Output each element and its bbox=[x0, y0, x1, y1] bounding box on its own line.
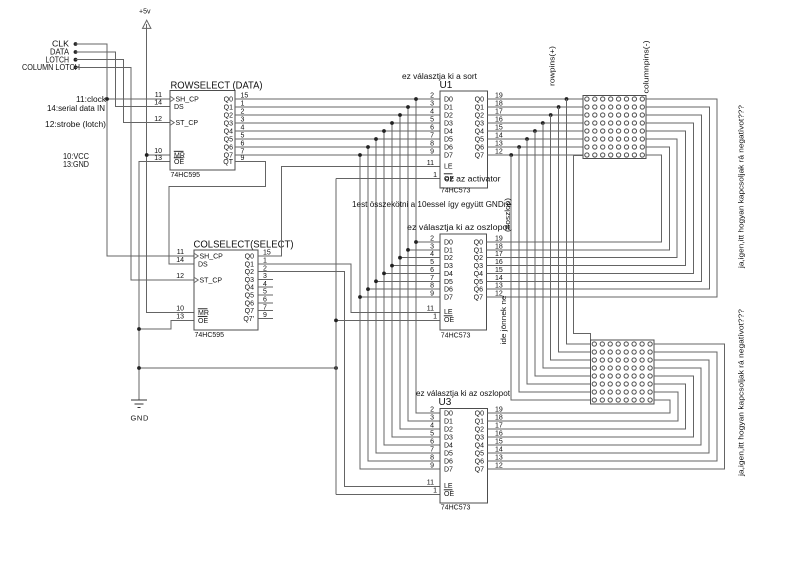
svg-text:2: 2 bbox=[430, 236, 434, 243]
svg-text:Q4: Q4 bbox=[475, 443, 484, 450]
junction rowpin tap Q7 bbox=[509, 153, 513, 157]
svg-text:Q3: Q3 bbox=[475, 121, 484, 128]
svg-text:Q1: Q1 bbox=[475, 419, 484, 426]
svg-text:Q5: Q5 bbox=[224, 137, 233, 144]
svg-text:COLUMN LOTCH: COLUMN LOTCH bbox=[22, 63, 80, 72]
junction rowpin tap Q1 bbox=[557, 105, 561, 109]
svg-text:14: 14 bbox=[495, 275, 503, 282]
svg-text:Q5: Q5 bbox=[245, 293, 254, 300]
svg-text:ez választja ki az oszlopot: ez választja ki az oszlopot bbox=[407, 223, 511, 232]
svg-text:4: 4 bbox=[430, 423, 434, 430]
svg-text:LE: LE bbox=[444, 309, 453, 316]
svg-text:14: 14 bbox=[154, 100, 162, 107]
svg-text:Q7: Q7 bbox=[475, 153, 484, 160]
svg-text:Q6: Q6 bbox=[475, 459, 484, 466]
wire rowpin tap Q5 to matrix2 row 6 left pin bbox=[527, 139, 591, 384]
svg-text:ide jönnek ne: ide jönnek ne bbox=[501, 295, 508, 344]
svg-text:3: 3 bbox=[430, 415, 434, 422]
svg-text:16: 16 bbox=[495, 431, 503, 438]
svg-text:Q6: Q6 bbox=[475, 145, 484, 152]
stub COLSELECT Q3-Q7 Q7' unconnected outputs bbox=[258, 278, 273, 280]
junction CLK at ROWSELECT SH_CP bbox=[105, 97, 109, 101]
junction GND rail left bbox=[137, 366, 141, 370]
wire data bus bit 2 (Q2 to U1.D2, U2.D2, U3.D2) bbox=[235, 114, 440, 116]
wire data bus bit 1 (Q1 to U1.D1, U2.D1, U3.D1) bbox=[235, 106, 440, 108]
wire rowpin tap Q2 to matrix2 row 3 left pin bbox=[551, 115, 591, 360]
junction rowpin tap Q0 bbox=[565, 97, 569, 101]
svg-text:3: 3 bbox=[430, 243, 434, 250]
junction GND at COLSELECT OE jog bbox=[137, 327, 141, 331]
svg-text:LE: LE bbox=[444, 483, 453, 490]
svg-text:D5: D5 bbox=[444, 451, 453, 458]
svg-text:Q6: Q6 bbox=[474, 287, 483, 294]
svg-text:D0: D0 bbox=[444, 97, 453, 104]
IC ROWSELECT 74HC595 shift register bbox=[170, 91, 235, 171]
junction bus bit 1 at U2.D1 bbox=[406, 248, 410, 252]
wire U3 Q7 to matrix2 row 1 right pin bbox=[488, 344, 725, 469]
svg-text:D4: D4 bbox=[444, 443, 453, 450]
svg-text:D0: D0 bbox=[444, 240, 453, 247]
svg-text:1: 1 bbox=[241, 101, 245, 108]
junction rowpin tap Q6 bbox=[517, 145, 521, 149]
svg-text:1: 1 bbox=[433, 172, 437, 179]
svg-text:4: 4 bbox=[430, 251, 434, 258]
svg-text:Q4: Q4 bbox=[245, 285, 254, 292]
svg-text:Q7: Q7 bbox=[245, 308, 254, 315]
wire GND net ROWSELECT OE to ground bbox=[139, 162, 170, 400]
wire matrix1 row8 link to matrix2 top-left bbox=[574, 155, 591, 339]
svg-text:D2: D2 bbox=[444, 255, 453, 262]
wire GND net COLSELECT OE jog bbox=[139, 320, 194, 329]
wire U1 Q0 to matrix1 row 1 left pin bbox=[488, 98, 584, 100]
wire COLSELECT Q1 to U2 LE bbox=[258, 264, 440, 313]
svg-text:12: 12 bbox=[495, 149, 503, 156]
wire U3 Q1 to matrix2 row 7 right pin bbox=[488, 392, 678, 421]
svg-text:5: 5 bbox=[430, 117, 434, 124]
svg-text:Q5: Q5 bbox=[475, 451, 484, 458]
svg-text:17: 17 bbox=[495, 251, 503, 258]
svg-text:Q2: Q2 bbox=[245, 269, 254, 276]
svg-text:D3: D3 bbox=[444, 121, 453, 128]
svg-text:1: 1 bbox=[433, 487, 437, 494]
wire U1 Q4 to matrix1 row 5 left pin bbox=[488, 130, 584, 132]
junction rowpin tap Q4 bbox=[533, 129, 537, 133]
wire U3 Q4 to matrix2 row 4 right pin bbox=[488, 368, 702, 445]
junction GND rail right bbox=[334, 366, 338, 370]
svg-text:15: 15 bbox=[495, 267, 503, 274]
wire data bus bit 3 (Q3 to U1.D3, U2.D3, U3.D3) bbox=[235, 122, 440, 124]
wire COLSELECT Q2 to U3 LE bbox=[258, 272, 440, 487]
svg-text:13: 13 bbox=[495, 283, 503, 290]
svg-text:Q2: Q2 bbox=[475, 113, 484, 120]
svg-text:11: 11 bbox=[427, 306, 434, 313]
svg-text:9: 9 bbox=[241, 155, 245, 162]
svg-text:Q7: Q7 bbox=[474, 295, 483, 302]
svg-text:Q0: Q0 bbox=[475, 97, 484, 104]
svg-text:14: 14 bbox=[176, 257, 184, 264]
svg-text:9: 9 bbox=[263, 312, 267, 319]
svg-text:11: 11 bbox=[155, 92, 162, 99]
svg-text:D1: D1 bbox=[444, 419, 453, 426]
svg-text:Q4: Q4 bbox=[224, 129, 233, 136]
svg-text:10: 10 bbox=[176, 306, 184, 313]
svg-text:7: 7 bbox=[430, 275, 434, 282]
wire U2 Q6 to matrix1 row 2 right pin bbox=[487, 107, 710, 289]
svg-text:Q2: Q2 bbox=[224, 113, 233, 120]
wire COLSELECT Q0 to U1 LE bbox=[258, 167, 440, 257]
svg-text:1: 1 bbox=[433, 314, 437, 321]
node DATA terminal dot bbox=[74, 50, 78, 54]
svg-text:15: 15 bbox=[495, 439, 503, 446]
svg-text:Q0: Q0 bbox=[474, 240, 483, 247]
LED matrix DIS2 8x8 bbox=[591, 340, 654, 404]
svg-text:6: 6 bbox=[430, 267, 434, 274]
node CLK terminal dot bbox=[74, 42, 78, 46]
svg-text:columnpins(-): columnpins(-) bbox=[642, 40, 651, 94]
wire rowpin tap Q6 to matrix2 row 7 left pin bbox=[519, 147, 591, 392]
svg-text:Q3: Q3 bbox=[224, 121, 233, 128]
svg-text:Q7: Q7 bbox=[475, 467, 484, 474]
svg-text:74HC595: 74HC595 bbox=[171, 172, 201, 179]
wire U2 Q4 to matrix1 row 4 right pin bbox=[487, 123, 694, 273]
svg-text:5: 5 bbox=[430, 431, 434, 438]
svg-text:5: 5 bbox=[430, 259, 434, 266]
wire U3 Q0 to matrix2 row 8 right pin bbox=[488, 400, 670, 413]
svg-text:QT: QT bbox=[223, 159, 233, 166]
svg-text:16: 16 bbox=[495, 117, 503, 124]
svg-text:D2: D2 bbox=[444, 113, 453, 120]
svg-text:4: 4 bbox=[430, 109, 434, 116]
svg-text:19: 19 bbox=[495, 93, 503, 100]
svg-text:13: 13 bbox=[154, 155, 162, 162]
wire U2 Q3 to matrix1 row 5 right pin bbox=[487, 131, 686, 266]
svg-text:74HC595: 74HC595 bbox=[195, 332, 225, 339]
svg-text:U1: U1 bbox=[440, 80, 453, 91]
node LOTCH terminal dot bbox=[74, 58, 78, 62]
wire U2 Q1 to matrix1 row 7 right pin bbox=[487, 147, 670, 250]
svg-text:Q1: Q1 bbox=[245, 261, 254, 268]
svg-text:D3: D3 bbox=[444, 263, 453, 270]
LED matrix DIS1 8x8 bbox=[583, 96, 646, 159]
svg-text:11: 11 bbox=[177, 249, 184, 256]
svg-text:D6: D6 bbox=[444, 145, 453, 152]
svg-text:ST_CP: ST_CP bbox=[176, 120, 199, 127]
wire U2 Q5 to matrix1 row 3 right pin bbox=[487, 115, 702, 281]
svg-text:15: 15 bbox=[241, 93, 249, 100]
junction bus bit 5 at row line bbox=[374, 137, 378, 141]
junction +5V at ROWSELECT MR bbox=[145, 153, 149, 157]
junction bus bit 3 at row line bbox=[390, 121, 394, 125]
svg-text:14:serial data IN: 14:serial data IN bbox=[47, 104, 105, 113]
svg-text:74HC573: 74HC573 bbox=[441, 187, 471, 194]
svg-text:Q0: Q0 bbox=[475, 411, 484, 418]
wire U3 Q5 to matrix2 row 3 right pin bbox=[488, 360, 709, 453]
svg-text:D7: D7 bbox=[444, 295, 453, 302]
svg-text:4: 4 bbox=[241, 125, 245, 132]
junction bus bit 2 at U2.D2 bbox=[398, 256, 402, 260]
wire U2 Q2 to matrix1 row 6 right pin bbox=[487, 139, 678, 258]
svg-text:D6: D6 bbox=[444, 459, 453, 466]
svg-text:15: 15 bbox=[495, 125, 503, 132]
wire U2 Q7 to matrix1 row 1 right pin bbox=[487, 99, 718, 297]
svg-text:GND: GND bbox=[131, 414, 149, 423]
junction rowpin tap Q3 bbox=[541, 121, 545, 125]
svg-text:(8oszlop): (8oszlop) bbox=[505, 198, 512, 232]
wire data bus bit 0 (Q0 to U1.D0, U2.D0, U3.D0) bbox=[235, 98, 440, 100]
svg-text:17: 17 bbox=[495, 423, 503, 430]
svg-text:D2: D2 bbox=[444, 427, 453, 434]
svg-text:3: 3 bbox=[241, 117, 245, 124]
svg-text:12: 12 bbox=[154, 116, 162, 123]
svg-text:D5: D5 bbox=[444, 137, 453, 144]
svg-text:ja,igen,itt hogyan kapcsoljak: ja,igen,itt hogyan kapcsoljak rá negatív… bbox=[737, 105, 746, 269]
svg-text:+5v: +5v bbox=[139, 9, 151, 16]
wire rowpin tap Q7 to matrix2 row 8 left pin bbox=[511, 155, 590, 400]
junction bus bit 0 at row line bbox=[414, 97, 418, 101]
wire U3 Q6 to matrix2 row 2 right pin bbox=[488, 352, 717, 461]
svg-text:Q0: Q0 bbox=[245, 254, 254, 261]
svg-text:rowpins(+): rowpins(+) bbox=[548, 45, 557, 86]
junction bus bit 7 at U2.D7 bbox=[358, 295, 362, 299]
svg-text:Q6: Q6 bbox=[245, 300, 254, 307]
svg-text:D6: D6 bbox=[444, 287, 453, 294]
svg-text:DS: DS bbox=[198, 262, 208, 269]
junction bus bit 4 at U2.D4 bbox=[382, 272, 386, 276]
svg-text:Q1: Q1 bbox=[474, 247, 483, 254]
svg-text:74HC573: 74HC573 bbox=[441, 332, 471, 339]
wire rowpin tap Q0 to matrix2 row 1 left pin bbox=[567, 99, 591, 344]
svg-text:ez választja ki az oszlopot: ez választja ki az oszlopot bbox=[416, 389, 511, 398]
wire serial cascade ROWSELECT QT to COLSELECT DS bbox=[169, 162, 266, 265]
svg-text:Q5: Q5 bbox=[475, 137, 484, 144]
svg-text:D3: D3 bbox=[444, 435, 453, 442]
wire data bus bit 5 (Q5 to U1.D5, U2.D5, U3.D5) bbox=[235, 138, 440, 140]
svg-text:9: 9 bbox=[430, 291, 434, 298]
svg-text:Q3: Q3 bbox=[474, 263, 483, 270]
wire rowpin tap Q4 to matrix2 row 5 left pin bbox=[535, 131, 591, 376]
wire U1 Q6 to matrix1 row 7 left pin bbox=[488, 146, 584, 148]
junction bus bit 4 at row line bbox=[382, 129, 386, 133]
junction bus bit 2 at row line bbox=[398, 113, 402, 117]
svg-text:Q4: Q4 bbox=[475, 129, 484, 136]
svg-text:OE: OE bbox=[444, 491, 454, 498]
svg-text:13: 13 bbox=[495, 455, 503, 462]
svg-text:Q1: Q1 bbox=[224, 105, 233, 112]
svg-text:Q1: Q1 bbox=[475, 105, 484, 112]
svg-text:12: 12 bbox=[495, 463, 503, 470]
svg-text:LE: LE bbox=[444, 164, 453, 171]
svg-text:6: 6 bbox=[241, 141, 245, 148]
wire U1 Q5 to matrix1 row 6 left pin bbox=[488, 138, 584, 140]
svg-text:6: 6 bbox=[430, 125, 434, 132]
wire +5V net (to MR pins) bbox=[147, 24, 194, 313]
wire DATA net (to ROWSELECT DS) bbox=[76, 52, 171, 107]
svg-text:D0: D0 bbox=[444, 411, 453, 418]
svg-text:8: 8 bbox=[430, 283, 434, 290]
svg-text:18: 18 bbox=[495, 101, 503, 108]
svg-text:D4: D4 bbox=[444, 271, 453, 278]
wire U2 Q0 to matrix1 row 8 right pin bbox=[487, 155, 662, 242]
wire LOTCH net (to ROWSELECT ST_CP) bbox=[76, 60, 171, 123]
wire U1 Q3 to matrix1 row 4 left pin bbox=[488, 122, 584, 124]
svg-text:ja,igen,itt hogyan kapcsoljak: ja,igen,itt hogyan kapcsoljak rá negatív… bbox=[737, 309, 746, 477]
junction bus bit 6 at row line bbox=[366, 145, 370, 149]
junction OE chain at U2 OE bbox=[334, 319, 338, 323]
junction bus bit 6 at U2.D6 bbox=[366, 287, 370, 291]
svg-text:SH_CP: SH_CP bbox=[200, 254, 224, 261]
svg-text:D1: D1 bbox=[444, 247, 453, 254]
wire data bus bit 4 (Q4 to U1.D4, U2.D4, U3.D4) bbox=[235, 130, 440, 132]
svg-text:2: 2 bbox=[241, 109, 245, 116]
svg-text:D7: D7 bbox=[444, 153, 453, 160]
svg-text:Q2: Q2 bbox=[474, 255, 483, 262]
svg-text:16: 16 bbox=[495, 259, 503, 266]
junction bus bit 0 at U2.D0 bbox=[414, 240, 418, 244]
svg-text:D5: D5 bbox=[444, 279, 453, 286]
svg-text:19: 19 bbox=[495, 236, 503, 243]
svg-text:12: 12 bbox=[176, 273, 184, 280]
svg-text:OE: OE bbox=[198, 318, 208, 325]
junction bus bit 3 at U2.D3 bbox=[390, 264, 394, 268]
svg-text:Q4: Q4 bbox=[474, 271, 483, 278]
node COLUMN LOTCH terminal dot bbox=[74, 66, 78, 70]
junction bus bit 5 at U2.D5 bbox=[374, 279, 378, 283]
junction bus bit 1 at row line bbox=[406, 105, 410, 109]
svg-text:ROWSELECT (DATA): ROWSELECT (DATA) bbox=[171, 80, 263, 91]
svg-text:7: 7 bbox=[430, 447, 434, 454]
wire U1 Q1 to matrix1 row 2 left pin bbox=[488, 106, 584, 108]
svg-text:9: 9 bbox=[430, 463, 434, 470]
svg-text:1est összekötni a 10essel így: 1est összekötni a 10essel így együtt GND… bbox=[352, 200, 512, 209]
svg-text:SH_CP: SH_CP bbox=[176, 97, 200, 104]
svg-text:11: 11 bbox=[427, 479, 434, 486]
svg-text:11:clock: 11:clock bbox=[76, 95, 107, 104]
svg-text:18: 18 bbox=[495, 243, 503, 250]
svg-text:11: 11 bbox=[427, 160, 434, 167]
svg-text:7: 7 bbox=[430, 133, 434, 140]
svg-text:74HC573: 74HC573 bbox=[441, 504, 471, 511]
wire OE chain vertical U1-U2-U3 bbox=[335, 179, 337, 495]
wire rowpin tap Q1 to matrix2 row 2 left pin bbox=[559, 107, 591, 352]
wire U3 Q3 to matrix2 row 5 right pin bbox=[488, 376, 694, 437]
svg-text:Q7': Q7' bbox=[243, 316, 254, 323]
wire rowpin tap Q3 to matrix2 row 4 left pin bbox=[543, 123, 591, 368]
svg-text:DS: DS bbox=[174, 104, 184, 111]
svg-text:Q3: Q3 bbox=[475, 435, 484, 442]
svg-text:Q2: Q2 bbox=[475, 427, 484, 434]
wire GND rail to latches bbox=[139, 367, 336, 369]
junction rowpin tap Q5 bbox=[525, 137, 529, 141]
svg-text:13:GND: 13:GND bbox=[63, 160, 89, 169]
wire COLUMN LOTCH net (to COLSELECT ST_CP) bbox=[76, 67, 195, 280]
svg-text:Q3: Q3 bbox=[245, 277, 254, 284]
svg-text:Q5: Q5 bbox=[474, 279, 483, 286]
svg-text:8: 8 bbox=[430, 141, 434, 148]
svg-text:2: 2 bbox=[430, 407, 434, 414]
junction rowpin tap Q2 bbox=[549, 113, 553, 117]
wire data bus bit 7 (Q7 to U1.D7, U2.D7, U3.D7) bbox=[235, 154, 440, 156]
svg-text:ez az activator: ez az activator bbox=[445, 174, 501, 183]
IC COLSELECT 74HC595 shift register bbox=[194, 250, 258, 330]
svg-text:8: 8 bbox=[430, 455, 434, 462]
svg-text:14: 14 bbox=[495, 133, 503, 140]
svg-text:ST_CP: ST_CP bbox=[200, 278, 223, 285]
wire U1 Q2 to matrix1 row 3 left pin bbox=[488, 114, 584, 116]
svg-text:6: 6 bbox=[430, 439, 434, 446]
svg-text:13: 13 bbox=[495, 141, 503, 148]
svg-text:OE: OE bbox=[174, 159, 184, 166]
svg-text:2: 2 bbox=[430, 93, 434, 100]
svg-text:18: 18 bbox=[495, 415, 503, 422]
svg-text:3: 3 bbox=[430, 101, 434, 108]
wire CLK net (to SH_CP pins) bbox=[76, 44, 195, 256]
svg-text:D7: D7 bbox=[444, 467, 453, 474]
svg-text:17: 17 bbox=[495, 109, 503, 116]
svg-text:U3: U3 bbox=[439, 397, 452, 408]
svg-text:13: 13 bbox=[176, 313, 184, 320]
svg-text:5: 5 bbox=[241, 133, 245, 140]
wire data bus bit 6 (Q6 to U1.D6, U2.D6, U3.D6) bbox=[235, 146, 440, 148]
svg-text:Q0: Q0 bbox=[224, 97, 233, 104]
IC U2 74HC573 latch bbox=[440, 234, 487, 330]
svg-text:COLSELECT(SELECT): COLSELECT(SELECT) bbox=[194, 240, 294, 251]
svg-text:OE: OE bbox=[444, 317, 454, 324]
svg-text:19: 19 bbox=[495, 407, 503, 414]
svg-text:Q6: Q6 bbox=[224, 145, 233, 152]
junction bus bit 7 at row line bbox=[358, 153, 362, 157]
wire U1 Q7 to matrix1 row 8 left pin bbox=[488, 154, 584, 156]
svg-text:9: 9 bbox=[430, 149, 434, 156]
svg-text:D1: D1 bbox=[444, 105, 453, 112]
wire U3 Q2 to matrix2 row 6 right pin bbox=[488, 384, 686, 429]
svg-text:D4: D4 bbox=[444, 129, 453, 136]
svg-text:12:strobe (lotch): 12:strobe (lotch) bbox=[45, 120, 106, 129]
svg-text:14: 14 bbox=[495, 447, 503, 454]
ground symbol bbox=[131, 399, 147, 401]
